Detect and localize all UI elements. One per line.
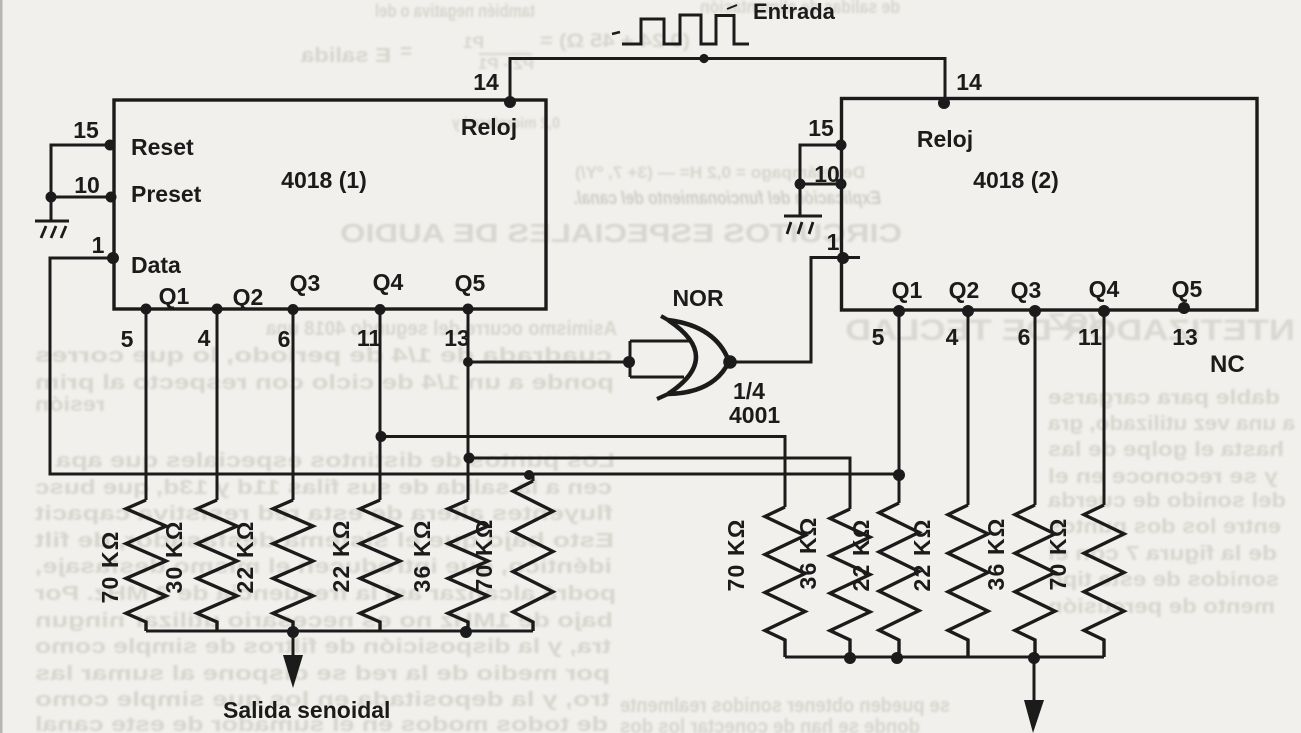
svg-text:22 KΩ: 22 KΩ xyxy=(909,518,935,591)
svg-text:Q5: Q5 xyxy=(455,270,486,296)
svg-text:tra, y la disposición de filtr: tra, y la disposición de filtros de simp… xyxy=(35,636,611,658)
svg-text:4018 (1): 4018 (1) xyxy=(281,167,367,193)
svg-text:y se reconoce en el: y se reconoce en el xyxy=(1048,466,1278,488)
svg-text:13: 13 xyxy=(444,325,470,351)
svg-text:Reloj: Reloj xyxy=(917,126,973,152)
svg-text:=: = xyxy=(400,41,412,63)
svg-text:hasta el golpe de las: hasta el golpe de las xyxy=(1048,439,1284,461)
svg-text:fluyentes altera de esta red r: fluyentes altera de esta red resistiva c… xyxy=(35,503,613,525)
svg-text:70 KΩ: 70 KΩ xyxy=(97,530,123,603)
svg-text:14: 14 xyxy=(473,69,499,95)
svg-text:36 KΩ: 36 KΩ xyxy=(983,517,1009,590)
svg-text:15: 15 xyxy=(73,117,99,143)
svg-text:5: 5 xyxy=(121,326,134,352)
svg-text:1: 1 xyxy=(92,232,105,258)
svg-text:resión: resión xyxy=(35,394,105,416)
svg-text:Reset: Reset xyxy=(131,134,194,160)
svg-text:Q5: Q5 xyxy=(1172,276,1203,302)
svg-text:13: 13 xyxy=(1172,324,1198,350)
svg-text:22 KΩ: 22 KΩ xyxy=(232,520,258,593)
svg-text:Data: Data xyxy=(131,252,181,278)
svg-text:22 KΩ: 22 KΩ xyxy=(848,518,874,591)
svg-text:10: 10 xyxy=(814,161,840,187)
svg-text:P1: P1 xyxy=(463,33,484,52)
svg-text:donde se han de conectar los d: donde se han de conectar los dos xyxy=(620,716,920,733)
svg-text:NOR: NOR xyxy=(672,285,724,311)
svg-text:Q1: Q1 xyxy=(892,277,923,303)
svg-text:70 KΩ: 70 KΩ xyxy=(471,518,497,591)
svg-text:sonidos de este tipo: sonidos de este tipo xyxy=(1048,569,1279,591)
svg-text:también negativa o del: también negativa o del xyxy=(375,1,535,21)
svg-text:por medio de la red se dispone: por medio de la red se dispone al sumar … xyxy=(35,663,610,685)
svg-text:10: 10 xyxy=(74,172,100,198)
svg-text:Q4: Q4 xyxy=(373,269,404,295)
svg-text:4: 4 xyxy=(198,325,211,351)
svg-text:Entrada: Entrada xyxy=(753,0,836,24)
svg-text:mento de percusión: mento de percusión xyxy=(1048,596,1275,618)
svg-text:Q1: Q1 xyxy=(159,283,190,309)
svg-text:NC: NC xyxy=(1210,351,1245,378)
svg-text:entre los dos puntos: entre los dos puntos xyxy=(1048,516,1281,538)
svg-text:1/4: 1/4 xyxy=(733,378,765,404)
svg-text:Q2: Q2 xyxy=(233,284,264,310)
svg-text:70 KΩ: 70 KΩ xyxy=(723,518,749,591)
svg-text:4001: 4001 xyxy=(729,402,780,428)
svg-text:6: 6 xyxy=(278,326,291,352)
svg-text:del sonido de cuerda: del sonido de cuerda xyxy=(1047,490,1286,512)
svg-text:se pueden obtener sonidos real: se pueden obtener sonidos realmente xyxy=(620,695,950,717)
svg-text:36 KΩ: 36 KΩ xyxy=(795,516,821,589)
svg-text:11: 11 xyxy=(357,325,382,351)
svg-text:30 KΩ: 30 KΩ xyxy=(161,520,187,593)
svg-text:6: 6 xyxy=(1018,324,1031,350)
svg-text:11: 11 xyxy=(1078,324,1103,350)
svg-text:Q3: Q3 xyxy=(1011,277,1042,303)
svg-text:Explicación del funcionamiento: Explicación del funcionamiento del canal… xyxy=(573,188,881,208)
svg-text:Q2: Q2 xyxy=(949,277,980,303)
svg-text:Salida senoidal: Salida senoidal xyxy=(223,697,390,723)
svg-text:36 KΩ: 36 KΩ xyxy=(409,519,435,592)
svg-text:1: 1 xyxy=(827,229,840,255)
svg-text:a una vez utilizado, gra: a una vez utilizado, gra xyxy=(1047,413,1295,435)
svg-text:ponde a un 1/4 de ciclo con re: ponde a un 1/4 de ciclo con respecto al … xyxy=(35,372,614,394)
svg-text:CIRCUITOS ESPECIALES DE AUDIO: CIRCUITOS ESPECIALES DE AUDIO xyxy=(340,218,902,248)
svg-text:dable para cargarse: dable para cargarse xyxy=(1048,387,1280,409)
svg-text:Preset: Preset xyxy=(131,181,202,207)
svg-text:4: 4 xyxy=(946,324,959,350)
svg-text:15: 15 xyxy=(808,115,834,141)
svg-text:Reloj: Reloj xyxy=(461,114,517,140)
svg-text:4018 (2): 4018 (2) xyxy=(973,167,1059,193)
svg-text:5: 5 xyxy=(872,324,885,350)
svg-text:Q4: Q4 xyxy=(1089,276,1120,302)
svg-text:Q3: Q3 xyxy=(290,270,321,296)
svg-text:E salida: E salida xyxy=(300,45,391,67)
svg-text:14: 14 xyxy=(956,69,982,95)
svg-text:Los puntos de distintos especi: Los puntos de distintos especiales que a… xyxy=(55,450,615,472)
svg-text:Asimismo ocurre del segundo 40: Asimismo ocurre del segundo 4018 una xyxy=(265,318,617,340)
svg-text:bajo de 1MHz no es necesario: bajo de 1MHz no es necesario utilizar ni… xyxy=(35,610,613,632)
svg-text:22 KΩ: 22 KΩ xyxy=(328,519,354,592)
svg-text:70 KΩ: 70 KΩ xyxy=(1045,517,1071,590)
